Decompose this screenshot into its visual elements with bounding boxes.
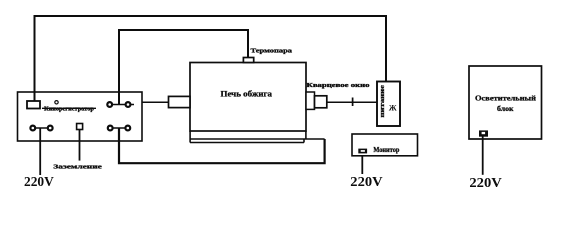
svg-text:Осветительный: Осветительный [475,93,537,102]
detector box [377,82,400,127]
svg-text:220V: 220V [24,174,54,189]
connector plug inside control box [27,101,40,109]
terminal circle (bottom-left pair, left) [30,126,35,131]
terminal circle (bottom-right pair, right) [125,126,130,131]
svg-text:220V: 220V [469,175,502,190]
svg-text:Заземление: Заземление [53,163,102,170]
wire inner-top loop (control box to thermocouple plug on furnace) [119,30,248,104]
earth terminal square [77,124,83,130]
furnace box [190,63,306,132]
svg-text:блок: блок [497,104,514,113]
lighting unit plug contact [482,132,486,134]
svg-text:Термопара: Термопара [251,48,293,55]
furnace base slab bottom line [190,142,304,144]
svg-text:Печь обжига: Печь обжига [221,90,273,99]
wire control box to furnace left port [142,101,169,103]
monitor plug symbol [358,149,367,154]
control box (left unit) [18,92,143,141]
svg-text:Монитор: Монитор [373,146,399,154]
svg-text:Кварцевое окно: Кварцевое окно [307,83,370,89]
wire bottom-left pair down to 220V [39,128,41,175]
furnace base left edge [189,131,191,143]
jumper wire of bottom-left terminal pair [33,127,50,129]
furnace right window inner [315,96,327,108]
thermocouple plug on furnace top [243,58,253,63]
ground wire down from earth terminal [79,127,81,161]
terminal circle (top-right pair, right) [126,102,131,107]
jumper wire of bottom-right terminal pair [107,127,131,129]
monitor box [352,134,418,156]
furnace base right edge upper [305,131,307,139]
monitor 220V wire [361,155,363,174]
terminal circle (bottom-right pair, left) [108,126,113,131]
furnace right window outer [306,92,315,109]
svg-text:питание: питание [380,85,386,118]
terminal circle (bottom-left pair, right) [48,126,53,131]
svg-text:Ж: Ж [389,103,397,112]
jumper wire of top-right terminal pair [110,104,134,106]
lighting unit plug symbol [479,130,488,136]
terminal circle (top-right pair, left) [107,102,112,107]
optical axis wire to detector [327,101,377,103]
furnace left port [169,96,191,107]
wire bottom-right pair down and across to furnace base [119,128,325,163]
furnace base slab top line [190,138,325,140]
indicator circle above control box label [55,101,58,104]
tick mark on optical axis [352,98,354,107]
monitor plug contact [361,150,365,152]
wire outer-top loop (control box plug to detector box top) [35,16,387,101]
strikethrough line over control box label [42,107,96,109]
svg-text:220V: 220V [350,174,383,189]
furnace base right edge lower [303,139,305,143]
lighting unit 220V wire [482,136,484,175]
lighting unit box [469,66,542,139]
